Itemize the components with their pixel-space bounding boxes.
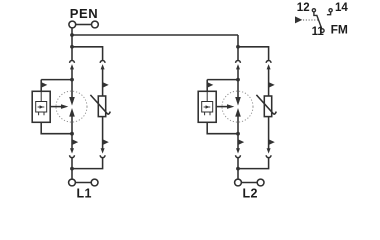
svg-text:FM: FM	[331, 23, 348, 37]
svg-text:L1: L1	[77, 187, 92, 201]
svg-text:11: 11	[312, 26, 325, 38]
svg-text:PEN: PEN	[70, 6, 98, 21]
svg-text:14: 14	[335, 2, 348, 14]
svg-text:12: 12	[297, 2, 310, 14]
svg-text:L2: L2	[243, 187, 258, 201]
